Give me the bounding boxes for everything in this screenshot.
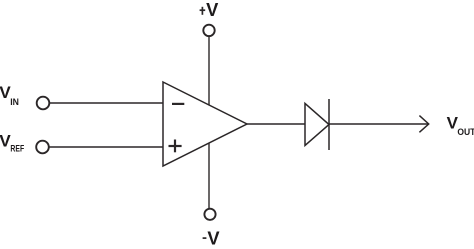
svg-text:V: V (206, 0, 219, 20)
svg-text:OUT: OUT (457, 127, 474, 138)
svg-text:REF: REF (10, 144, 24, 154)
svg-text:V: V (207, 228, 220, 249)
svg-text:IN: IN (10, 97, 19, 107)
